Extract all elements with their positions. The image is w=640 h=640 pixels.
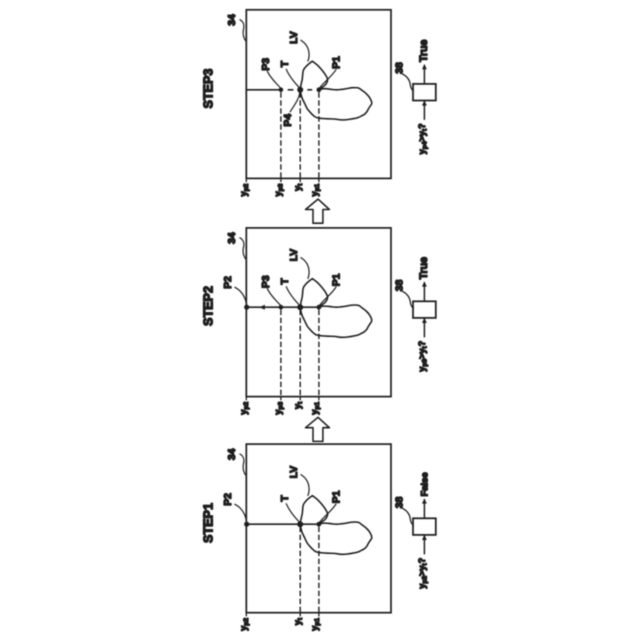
svg-text:38: 38	[395, 62, 406, 74]
svg-text:STEP3: STEP3	[202, 69, 216, 109]
block arrow between panels	[306, 417, 330, 441]
input arrow (panel STEP3)	[423, 101, 425, 119]
svg-text:T: T	[280, 278, 291, 285]
svg-text:T: T	[280, 60, 291, 67]
leader P1 (panel STEP1)	[319, 504, 336, 523]
leader for 34 (panel STEP3)	[240, 20, 246, 42]
svg-text:34: 34	[227, 232, 238, 244]
svg-text:34: 34	[227, 14, 238, 26]
scan line through T (panel STEP1)	[246, 523, 319, 525]
leader P2 (panel STEP1)	[235, 504, 247, 523]
svg-text:P3: P3	[261, 275, 272, 288]
svg-text:38: 38	[395, 279, 406, 291]
decision box 38 (panel STEP1)	[413, 518, 436, 535]
block arrow between panels	[306, 199, 330, 223]
svg-text:34: 34	[227, 448, 238, 460]
leader P2 (panel STEP2)	[235, 287, 247, 306]
dashed projection line y_t (panel STEP3)	[299, 93, 301, 179]
svg-text:LV: LV	[289, 31, 300, 44]
leader 38 (panel STEP1)	[402, 508, 413, 525]
output arrow (panel STEP1)	[423, 500, 425, 519]
frame rectangle 34 (panel STEP2)	[246, 228, 391, 397]
leader P1 (panel STEP3)	[319, 70, 336, 89]
leader P3 (panel STEP3)	[267, 71, 281, 88]
leader LV (panel STEP2)	[301, 258, 309, 279]
svg-text:P1: P1	[331, 490, 342, 503]
axis tick y_p1 (panel STEP2)	[318, 397, 320, 400]
dashed projection line y_t (panel STEP1)	[299, 527, 301, 613]
svg-text:P3: P3	[261, 58, 272, 71]
point P3 (panel STEP3)	[279, 88, 284, 93]
leader for 34 (panel STEP2)	[240, 238, 246, 260]
scan line through T (panel STEP3)	[246, 89, 281, 91]
axis tick y_p1 (panel STEP1)	[318, 613, 320, 616]
leader LV (panel STEP3)	[301, 40, 309, 61]
dashed projection line y_p1 (panel STEP3)	[318, 93, 320, 179]
frame rectangle 34 (panel STEP1)	[246, 444, 391, 613]
point T (panel STEP2)	[297, 304, 303, 310]
point P2 on left edge (panel STEP1)	[244, 522, 249, 527]
point T (panel STEP3)	[297, 87, 303, 93]
point P2 on left edge (panel STEP2)	[244, 305, 249, 310]
svg-text:LV: LV	[289, 249, 300, 262]
axis tick y_p2 (panel STEP2)	[245, 397, 247, 400]
leader T (panel STEP1)	[286, 504, 300, 523]
decision box 38 (panel STEP3)	[413, 84, 436, 101]
axis tick y_p3 (panel STEP3)	[280, 178, 282, 181]
point P1 (panel STEP2)	[317, 305, 322, 310]
leader P4 (panel STEP3)	[290, 92, 300, 112]
object contour LV (panel STEP3)	[300, 61, 372, 120]
leader P3 (panel STEP2)	[267, 289, 281, 306]
svg-text:yp4>yt?: yp4>yt?	[417, 123, 428, 154]
decision box 38 (panel STEP2)	[413, 301, 436, 318]
leader 38 (panel STEP2)	[402, 291, 413, 308]
svg-text:yp3>yt?: yp3>yt?	[417, 340, 428, 371]
svg-text:False: False	[419, 472, 430, 496]
axis tick y_p3 (panel STEP2)	[280, 397, 282, 400]
svg-text:yp2>yt?: yp2>yt?	[417, 557, 428, 588]
svg-text:P2: P2	[223, 276, 234, 289]
svg-text:P1: P1	[331, 273, 342, 286]
axis tick y_t (panel STEP1)	[299, 613, 301, 616]
arrowhead on scan line pointing toward P2	[259, 305, 265, 310]
point P1 (panel STEP1)	[317, 522, 322, 527]
dashed projection line y_t (panel STEP2)	[299, 310, 301, 396]
axis tick y_t (panel STEP3)	[299, 178, 301, 181]
output arrow (panel STEP2)	[423, 283, 425, 302]
svg-text:38: 38	[395, 496, 406, 508]
point T (panel STEP1)	[297, 521, 303, 527]
axis tick y_t (panel STEP2)	[299, 397, 301, 400]
output arrow (panel STEP3)	[423, 65, 425, 84]
leader T (panel STEP3)	[286, 69, 300, 88]
axis tick y_p2 (panel STEP1)	[245, 613, 247, 616]
leader 38 (panel STEP3)	[402, 74, 413, 91]
svg-text:STEP2: STEP2	[202, 286, 216, 326]
leader P1 (panel STEP2)	[319, 287, 336, 306]
object contour LV (panel STEP1)	[300, 496, 372, 555]
input arrow (panel STEP1)	[423, 536, 425, 554]
axis tick y_p1 (panel STEP3)	[318, 178, 320, 181]
leader T (panel STEP2)	[286, 287, 300, 306]
svg-text:T: T	[280, 495, 291, 502]
input arrow (panel STEP2)	[423, 319, 425, 337]
dashed projection line y_p1 (panel STEP1)	[318, 527, 320, 613]
dashed projection line y_p1 (panel STEP2)	[318, 310, 320, 396]
frame rectangle 34 (panel STEP3)	[246, 10, 391, 179]
point P1 (panel STEP3)	[317, 87, 322, 92]
object contour LV (panel STEP2)	[300, 279, 372, 338]
svg-text:P2: P2	[223, 493, 234, 506]
dashed projection line y_p3 (panel STEP3)	[280, 93, 282, 179]
scan line through T (panel STEP2)	[246, 306, 319, 308]
leader for 34 (panel STEP1)	[240, 454, 246, 476]
axis tick y_p2 (panel STEP3)	[245, 178, 247, 181]
svg-text:P4: P4	[283, 114, 294, 127]
svg-text:True: True	[418, 40, 430, 62]
dashed projection line y_p3 (panel STEP2)	[280, 310, 282, 396]
leader LV (panel STEP1)	[301, 475, 309, 496]
svg-text:True: True	[418, 257, 430, 279]
svg-text:P1: P1	[331, 56, 342, 69]
dashed segment P3 to P1 (panel STEP3)	[288, 89, 311, 91]
svg-text:LV: LV	[289, 466, 300, 479]
point P3 (panel STEP2)	[279, 305, 284, 310]
svg-text:STEP1: STEP1	[202, 503, 216, 543]
